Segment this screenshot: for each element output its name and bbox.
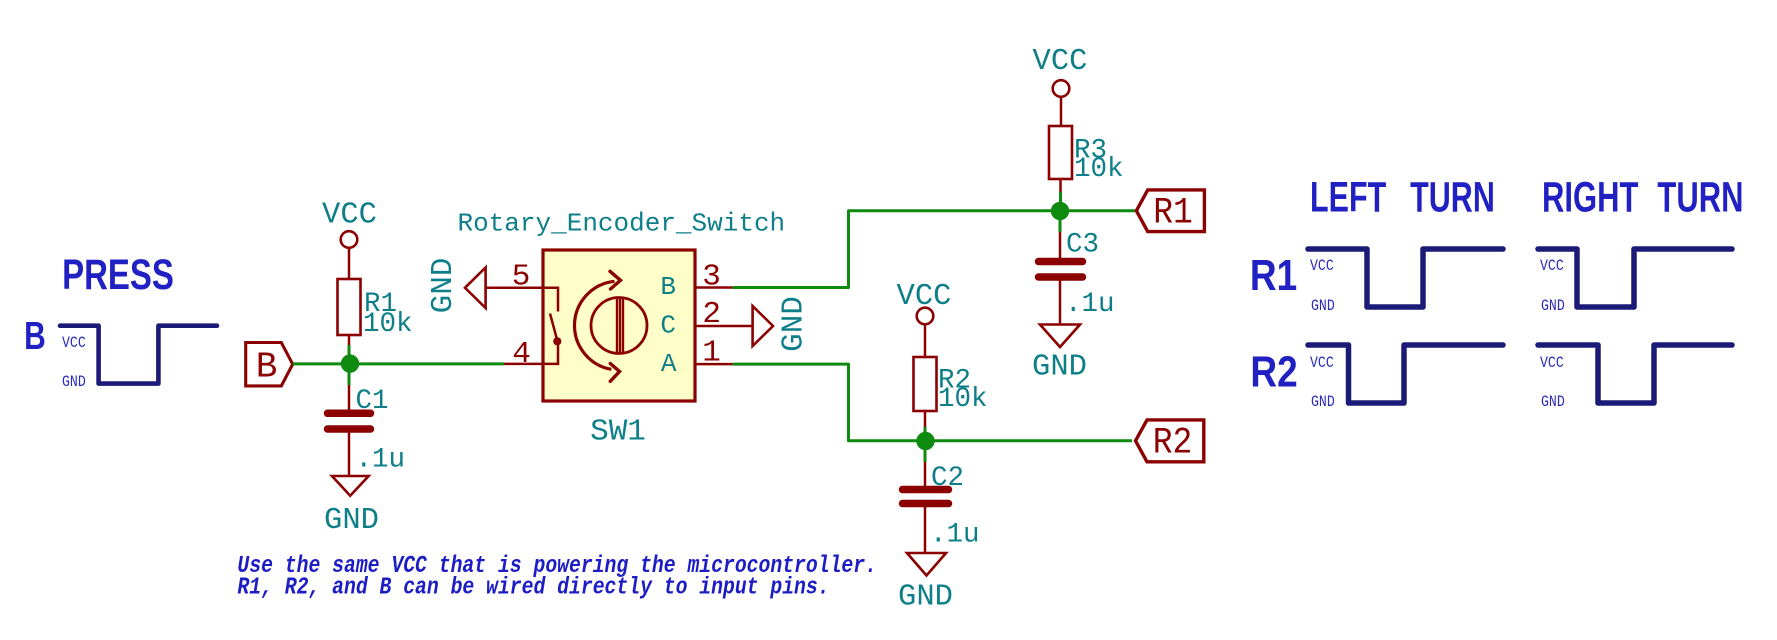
svg-text:5: 5 [512, 260, 531, 295]
pin 4 [504, 363, 543, 366]
ground flag pin2 [753, 306, 773, 346]
svg-text:GND: GND [777, 296, 812, 352]
svg-text:B: B [660, 272, 676, 302]
arrowhead top [610, 271, 621, 289]
resistor R3 [1049, 126, 1072, 179]
svg-text:GND: GND [1541, 298, 1565, 315]
capacitor C1 [328, 413, 371, 429]
ground symbol C2 [907, 553, 946, 576]
arrowhead bottom [610, 364, 619, 382]
junction R2 net [916, 432, 934, 450]
rotation arc bottom [575, 326, 612, 370]
switch contact pin5 inner [543, 288, 558, 312]
svg-text:A: A [661, 349, 677, 379]
svg-text:R1: R1 [1250, 250, 1297, 300]
waveform left-turn R2 [1308, 345, 1503, 403]
flag B [246, 343, 293, 386]
encoder shaft bars [617, 298, 623, 354]
svg-text:VCC: VCC [62, 335, 86, 352]
svg-text:10k: 10k [938, 384, 988, 415]
capacitor C2 [903, 490, 949, 504]
svg-text:.1u: .1u [930, 520, 980, 551]
svg-text:R1, R2, and B can be wired dir: R1, R2, and B can be wired directly to i… [237, 574, 829, 601]
wire pin1 to R2 net [733, 364, 1132, 441]
svg-text:VCC: VCC [1540, 258, 1564, 275]
svg-text:C: C [660, 311, 676, 341]
svg-text:PRESS: PRESS [62, 251, 174, 299]
wire junction to C2 [924, 441, 927, 462]
pin 3 [695, 286, 733, 289]
wire R2 to junction [924, 411, 927, 427]
svg-text:10k: 10k [363, 309, 413, 340]
switch contact pin4 inner [543, 344, 558, 364]
VCC symbol circle R1 [341, 231, 358, 248]
rotation arc top [575, 281, 615, 325]
svg-text:GND: GND [1541, 394, 1565, 411]
waveform right-turn R2 [1538, 345, 1732, 403]
wire C3 to GND [1059, 280, 1062, 325]
ground flag pin5 [465, 268, 486, 309]
waveform right-turn R1 [1538, 249, 1732, 307]
wire C1 to GND [348, 430, 351, 477]
wire junction to C1 [348, 364, 351, 385]
resistor R1 [338, 279, 361, 335]
svg-text:SW1: SW1 [590, 415, 646, 450]
switch SW1 body [543, 250, 695, 401]
waveform left-turn R1 [1308, 249, 1503, 307]
switch lever [550, 314, 557, 340]
svg-text:3: 3 [702, 260, 721, 295]
svg-text:VCC: VCC [1540, 355, 1564, 372]
resistor R2 [914, 357, 937, 411]
wire C2 to GND [924, 507, 927, 554]
svg-text:R2: R2 [1153, 422, 1193, 464]
wire VCC to R2 [924, 324, 927, 358]
encoder circle [591, 298, 647, 354]
wire R3 to junction [1059, 179, 1062, 192]
svg-text:VCC: VCC [322, 199, 377, 233]
svg-text:VCC: VCC [1310, 355, 1334, 372]
svg-text:R2: R2 [1250, 347, 1297, 397]
svg-text:B: B [256, 346, 278, 387]
svg-text:R1: R1 [1153, 192, 1193, 234]
wire VCC to R1 [348, 248, 351, 280]
svg-text:Rotary_Encoder_Switch: Rotary_Encoder_Switch [458, 209, 786, 239]
svg-text:.1u: .1u [356, 445, 406, 476]
svg-text:GND: GND [324, 504, 379, 538]
wire pin3 to R1 net [733, 211, 1137, 288]
pin 2 [695, 325, 753, 328]
svg-text:VCC: VCC [1033, 45, 1088, 79]
svg-text:GND: GND [898, 581, 953, 615]
svg-text:4: 4 [512, 337, 531, 372]
ground symbol C3 [1040, 325, 1080, 348]
junction B [341, 354, 359, 372]
svg-text:GND: GND [1032, 351, 1087, 385]
pin 5 [486, 287, 543, 290]
wire junction to C3 [1059, 211, 1062, 232]
waveform B press [60, 326, 217, 384]
flag R2 [1136, 420, 1204, 462]
wire B flag to pin 4 [293, 362, 504, 365]
wire VCC to R3 [1060, 97, 1063, 127]
junction R1 net [1051, 202, 1069, 220]
svg-text:C3: C3 [1066, 230, 1099, 261]
svg-text:GND: GND [1311, 298, 1335, 315]
pin 1 [695, 363, 733, 366]
svg-text:GND: GND [426, 258, 461, 314]
switch contact dot [553, 337, 561, 345]
svg-text:2: 2 [702, 297, 721, 332]
svg-text:GND: GND [1311, 394, 1335, 411]
VCC symbol circle R3 [1053, 80, 1070, 97]
svg-text:GND: GND [62, 374, 86, 391]
svg-text:VCC: VCC [1310, 258, 1334, 275]
svg-text:B: B [24, 314, 46, 358]
svg-text:10k: 10k [1074, 154, 1124, 185]
capacitor C3 [1039, 262, 1083, 278]
ground symbol C1 [332, 476, 369, 496]
flag R1 [1136, 190, 1204, 232]
VCC symbol circle R2 [917, 308, 934, 325]
wire R1 to junction [348, 335, 351, 345]
svg-text:1: 1 [702, 336, 721, 371]
svg-text:.1u: .1u [1065, 289, 1115, 320]
